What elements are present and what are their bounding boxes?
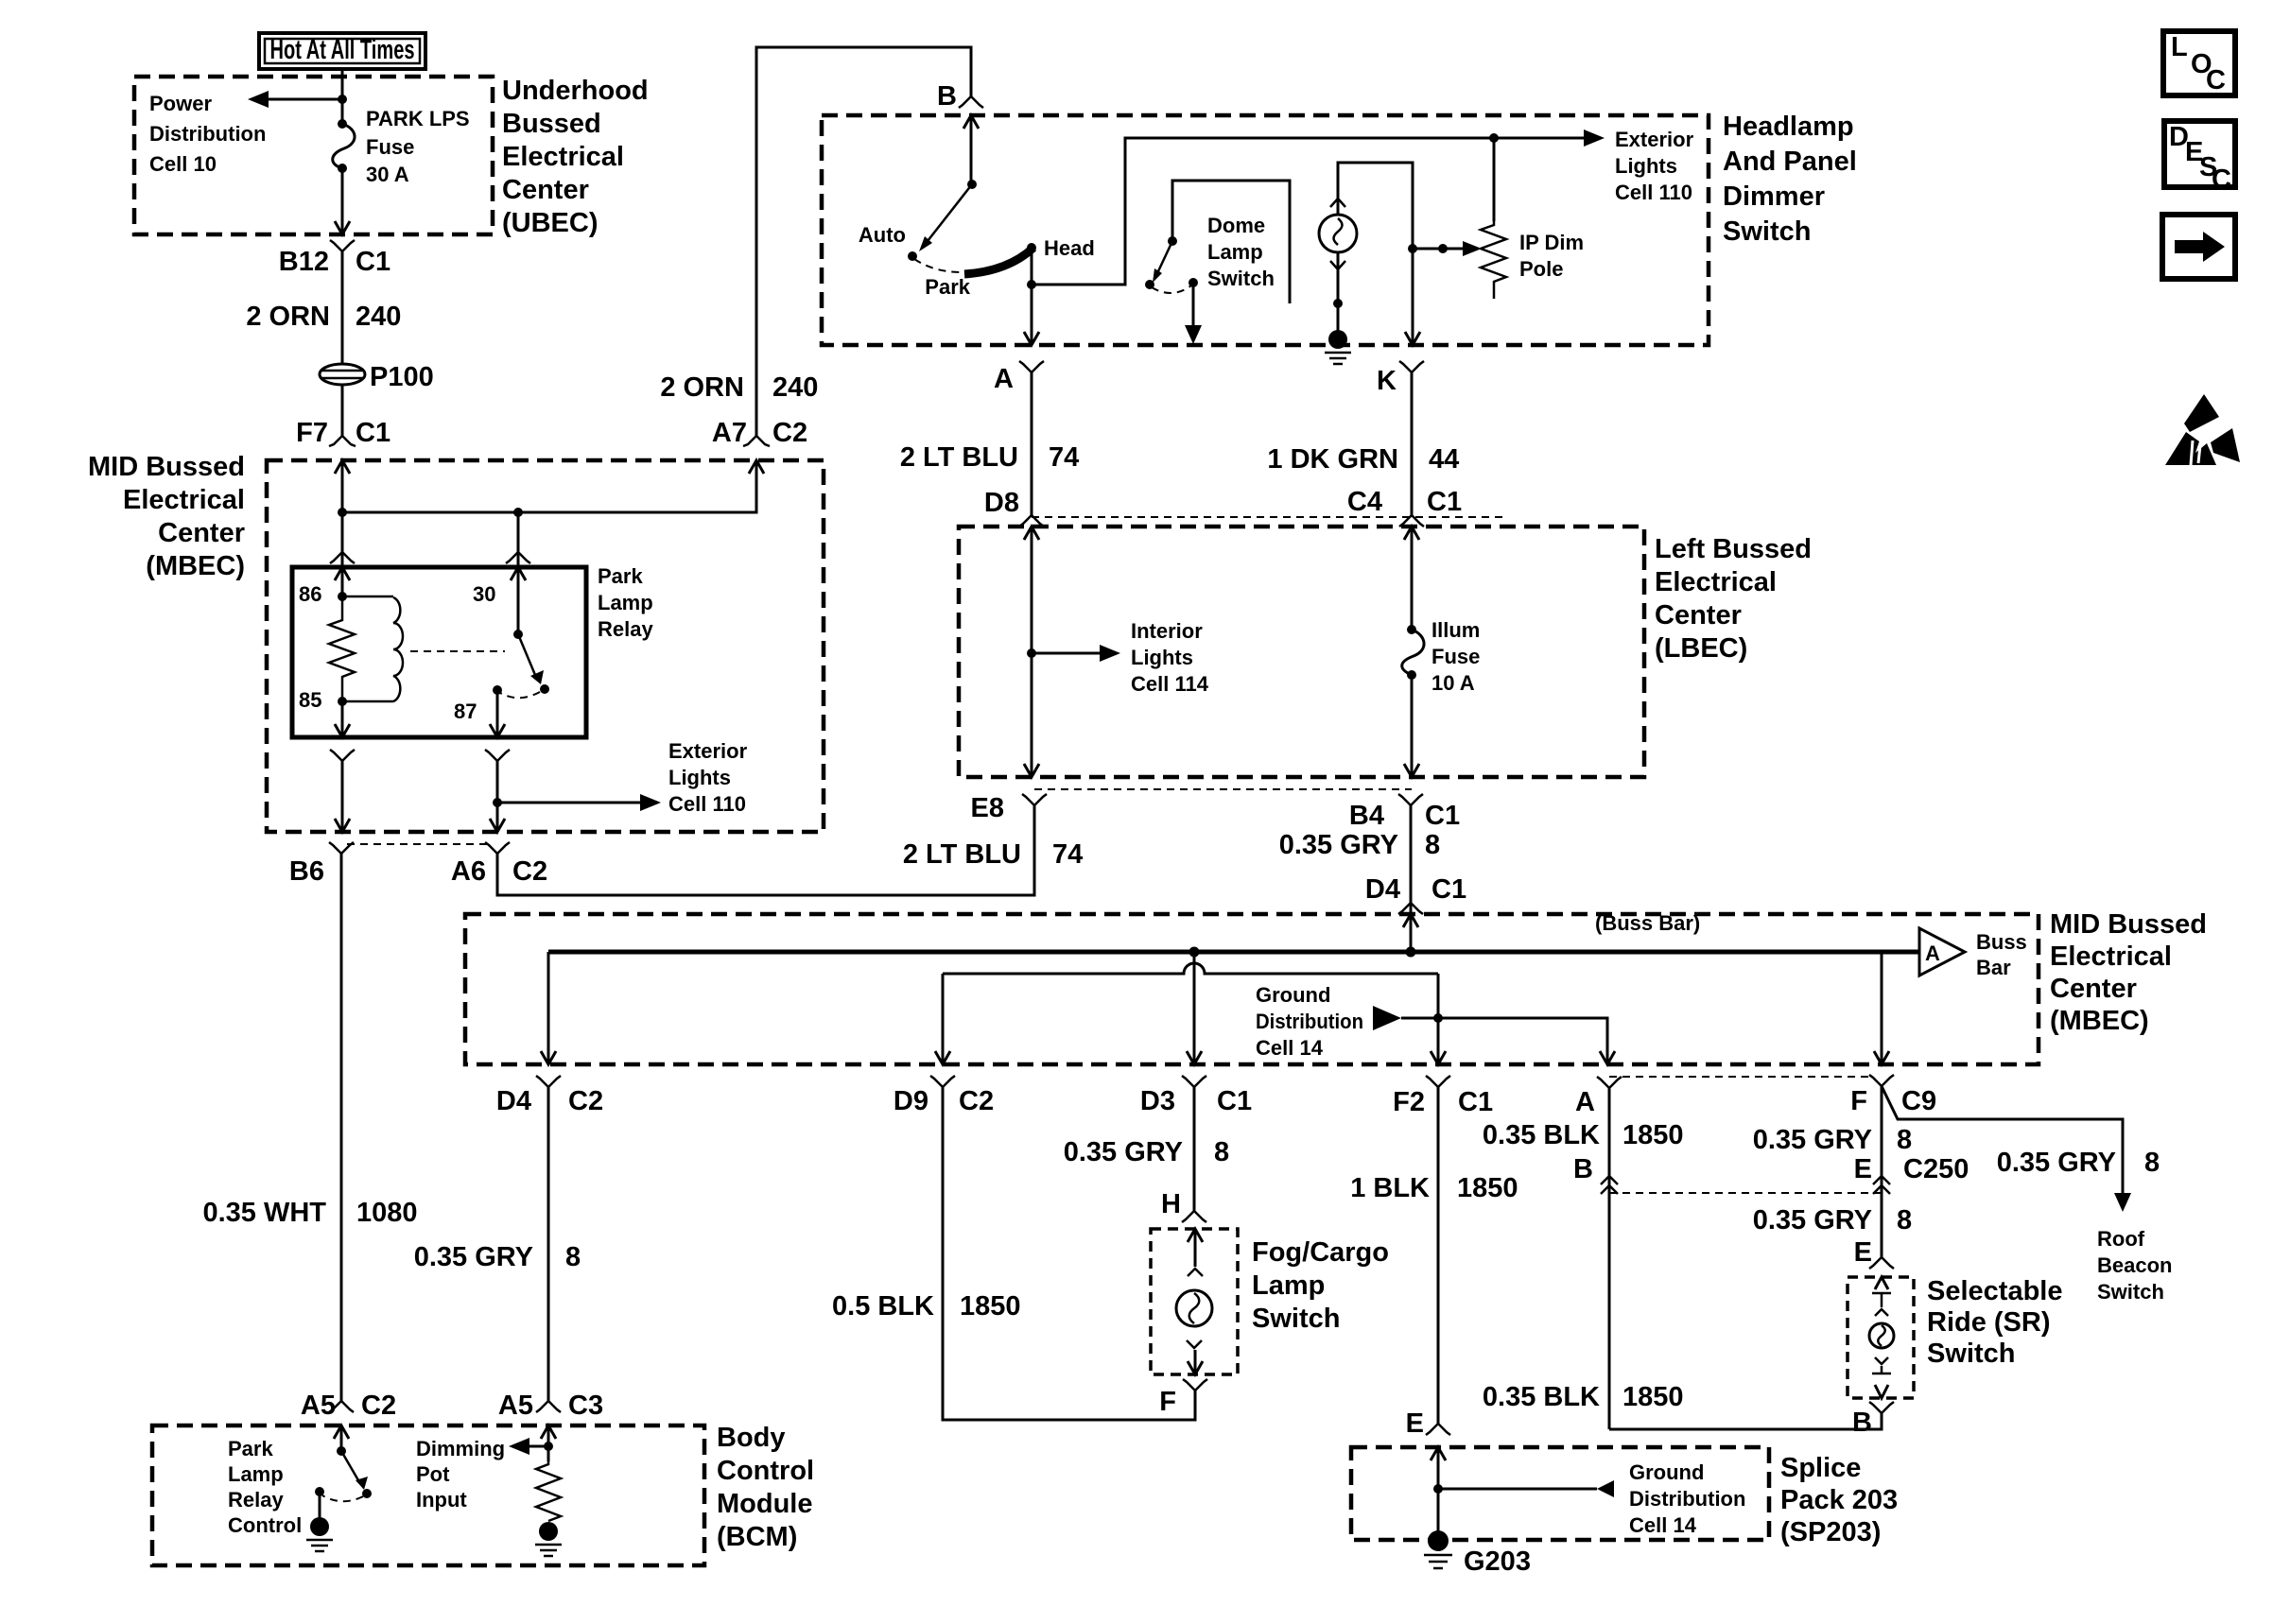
- svg-text:B: B: [937, 81, 957, 112]
- selectable ride illumination lamp: [1869, 1323, 1894, 1348]
- svg-text:2 ORN: 2 ORN: [660, 372, 744, 403]
- svg-text:8: 8: [2144, 1148, 2160, 1178]
- arrow into LBEC at D8: [1024, 527, 1039, 540]
- svg-text:MID Bussed: MID Bussed: [88, 452, 245, 482]
- UBEC dashed box: [134, 77, 493, 234]
- svg-text:C9: C9: [1901, 1086, 1936, 1116]
- wire label 0.35 GRY 8: [1753, 1125, 1912, 1155]
- svg-text:E8: E8: [971, 793, 1004, 823]
- node K branch: [1408, 244, 1417, 253]
- connector chevron B4/C1: [1398, 794, 1423, 805]
- wire D9/C2 down and over to fog switch F: [943, 1087, 1195, 1420]
- svg-text:Distribution: Distribution: [1629, 1487, 1745, 1511]
- wire label 0.35 BLK 1850 lower: [1483, 1382, 1684, 1412]
- arrow into fog box top: [1188, 1229, 1203, 1242]
- label Buss Bar: [1976, 930, 2027, 979]
- svg-text:87: 87: [454, 700, 477, 723]
- arrow at UBEC bottom edge: [335, 221, 350, 234]
- dome lamp switch upper wire: [1172, 181, 1290, 303]
- svg-text:(UBEC): (UBEC): [502, 208, 599, 238]
- svg-text:2 LT BLU: 2 LT BLU: [903, 839, 1021, 870]
- node relay coil top: [338, 592, 347, 601]
- svg-text:Center: Center: [1655, 600, 1742, 631]
- label Left Bussed Electrical Center (LBEC): [1655, 534, 1812, 664]
- connector chevron below pin 85: [330, 750, 355, 761]
- node headlamp switch pivot: [967, 180, 977, 189]
- wire relay pin 85: [341, 701, 344, 737]
- ground G203: [1424, 1530, 1452, 1568]
- svg-text:L: L: [2171, 32, 2188, 62]
- wire label 2 LT BLU 74: [900, 442, 1079, 473]
- ground net wire D9 drop: [942, 974, 945, 1064]
- connector chevron B at SR switch: [1869, 1402, 1894, 1413]
- arrow at MBEC bottom edge B6: [335, 819, 350, 832]
- wire label 2 LT BLU 74: [903, 839, 1083, 870]
- svg-text:86: 86: [299, 582, 321, 606]
- svg-text:K: K: [1377, 366, 1397, 396]
- wire F down through E/C250: [1881, 1086, 1883, 1257]
- label MID Bussed Electrical Center (MBEC): [2050, 909, 2207, 1036]
- arrow into box at B: [963, 115, 979, 129]
- connector chevron F2/C1: [1426, 1076, 1450, 1087]
- connector chevron A5/C2: [329, 1401, 354, 1412]
- arrow at fog box bottom: [1188, 1361, 1203, 1374]
- connector chevron B: [959, 96, 983, 108]
- svg-text:A6: A6: [451, 856, 486, 887]
- svg-text:C1: C1: [1425, 801, 1460, 831]
- wire panel lamp feed: [1338, 163, 1413, 345]
- svg-text:0.35 GRY: 0.35 GRY: [1279, 830, 1398, 860]
- svg-text:0.35 WHT: 0.35 WHT: [202, 1198, 326, 1228]
- node exterior lights branch: [493, 798, 502, 807]
- resistor IP Dim Pole: [1481, 221, 1506, 299]
- label Interior Lights Cell 114: [1131, 619, 1209, 696]
- buss bar triangle A: [1919, 928, 1965, 976]
- svg-text:Ground: Ground: [1256, 983, 1330, 1007]
- Headlamp And Panel Dimmer Switch dashed box: [822, 115, 1709, 345]
- svg-text:0.35 GRY: 0.35 GRY: [1753, 1125, 1872, 1155]
- connector chevron F/C9: [1869, 1075, 1894, 1086]
- label Selectable Ride (SR) Switch: [1927, 1276, 2062, 1369]
- connector chevron F7/C1: [329, 436, 356, 446]
- wire D3/C1 down to fog switch H: [1193, 1087, 1196, 1211]
- arrow into BCM at A5/C2: [334, 1425, 349, 1439]
- svg-text:Exterior: Exterior: [668, 739, 748, 763]
- ESD sensitivity symbol: [2165, 394, 2240, 465]
- dome switch lever: [1158, 241, 1172, 271]
- svg-text:Lamp: Lamp: [1207, 240, 1263, 264]
- wire into relay pin 86: [341, 552, 344, 596]
- dashed actuation link: [410, 650, 505, 652]
- svg-text:A: A: [1925, 942, 1940, 965]
- svg-text:30 A: 30 A: [366, 163, 409, 186]
- Park Lamp Relay box: [292, 567, 586, 737]
- svg-text:(MBEC): (MBEC): [2050, 1006, 2149, 1036]
- svg-text:Beacon: Beacon: [2097, 1253, 2172, 1277]
- svg-text:C1: C1: [1217, 1086, 1252, 1116]
- wire B into headlamp box: [970, 115, 973, 184]
- svg-text:Lights: Lights: [668, 766, 731, 789]
- arrow at relay pin 87: [490, 724, 505, 737]
- svg-text:(SP203): (SP203): [1780, 1517, 1881, 1547]
- wire to Power Distribution: [265, 98, 342, 101]
- arrow at MBEC bottom A: [1600, 1051, 1615, 1064]
- dome lever arrowhead: [1153, 268, 1162, 283]
- label Headlamp And Panel Dimmer Switch: [1723, 112, 1857, 247]
- svg-text:0.35 BLK: 0.35 BLK: [1483, 1382, 1600, 1412]
- svg-text:240: 240: [356, 302, 401, 332]
- svg-text:8: 8: [565, 1242, 581, 1272]
- ground net horizontal with hop: [943, 963, 1438, 974]
- svg-text:Splice: Splice: [1780, 1453, 1861, 1483]
- double chevron B: [1601, 1176, 1618, 1194]
- wire B6 down to BCM A5: [340, 854, 343, 1401]
- arrow at LBEC bottom left: [1024, 764, 1039, 777]
- connector chevron D8: [1019, 515, 1044, 527]
- DESC reference box: [2164, 121, 2235, 195]
- lamp chevron top: [1330, 199, 1345, 207]
- svg-text:A7: A7: [712, 418, 747, 448]
- connector chevron D4/C1: [1398, 903, 1423, 914]
- label Roof Beacon Switch: [2097, 1227, 2172, 1304]
- connector chevron A6: [485, 842, 510, 854]
- label Dimming Pot Input: [416, 1437, 505, 1512]
- SR lamp top bar: [1872, 1293, 1891, 1307]
- resistor dimming pot: [536, 1461, 561, 1521]
- svg-text:(LBEC): (LBEC): [1655, 633, 1747, 664]
- thin dashed connector line upper: [1609, 1076, 1870, 1078]
- svg-text:A: A: [1575, 1087, 1595, 1117]
- svg-text:Lamp: Lamp: [228, 1462, 284, 1486]
- svg-text:Fuse: Fuse: [366, 135, 414, 159]
- Selectable Ride switch dashed box: [1848, 1277, 1914, 1398]
- svg-text:Switch: Switch: [1207, 267, 1275, 290]
- wire label 0.5 BLK 1850: [832, 1291, 1021, 1322]
- node Head output junction: [1027, 280, 1036, 289]
- ground symbol in headlamp box: [1325, 330, 1351, 364]
- wire pin 85 to MBEC edge: [341, 761, 344, 832]
- arrow to Power Distribution Cell 10: [248, 91, 269, 108]
- chevron below fog lamp: [1187, 1340, 1202, 1348]
- svg-text:Cell 110: Cell 110: [1615, 181, 1692, 204]
- label Illum Fuse 10 A: [1431, 618, 1480, 695]
- svg-text:Pot: Pot: [416, 1462, 450, 1486]
- connector chevron A: [1597, 1077, 1622, 1088]
- svg-text:0.35 GRY: 0.35 GRY: [414, 1242, 533, 1272]
- svg-text:Interior: Interior: [1131, 619, 1203, 643]
- arrow at box edge A: [1024, 332, 1039, 345]
- svg-text:Center: Center: [158, 518, 245, 548]
- wire D8 through LBEC: [1031, 527, 1033, 777]
- node lamp ground junction: [1333, 299, 1343, 308]
- wire B12 to P100: [341, 251, 344, 365]
- arrow at MBEC bottom edge A6: [490, 819, 505, 832]
- BCM switch lever: [341, 1451, 358, 1480]
- arrow at relay pin 30: [511, 567, 526, 580]
- lamp chevron bottom: [1330, 261, 1345, 269]
- arrow into MBEC at F7: [335, 460, 350, 474]
- label Ground Distribution Cell 14: [1629, 1460, 1745, 1537]
- arrow into LBEC at C4/C1: [1404, 527, 1419, 540]
- thin dashed connector line above LBEC: [1032, 516, 1508, 518]
- label Park Lamp Relay Control: [228, 1437, 302, 1537]
- svg-text:Auto: Auto: [859, 223, 906, 247]
- svg-text:Pole: Pole: [1519, 257, 1563, 281]
- svg-text:C1: C1: [1427, 487, 1462, 517]
- wire A down to LBEC: [1031, 372, 1033, 515]
- MBEC dashed box (upper): [267, 460, 824, 832]
- svg-text:Underhood: Underhood: [502, 76, 649, 106]
- node dome switch contact left: [1145, 280, 1154, 289]
- ground distribution wire to A drop: [1401, 1018, 1607, 1064]
- svg-text:44: 44: [1429, 444, 1459, 475]
- label Exterior Lights Cell 110: [1615, 128, 1694, 204]
- svg-text:Dimming: Dimming: [416, 1437, 505, 1460]
- svg-text:Fog/Cargo: Fog/Cargo: [1252, 1237, 1389, 1268]
- wire label 0.35 GRY 8: [414, 1242, 581, 1272]
- thin dashed connector line B6-A6: [347, 843, 490, 845]
- wire dimming pot branch: [526, 1445, 548, 1448]
- svg-text:Electrical: Electrical: [1655, 567, 1777, 597]
- wire contact to ground: [319, 1492, 321, 1520]
- svg-text:8: 8: [1425, 830, 1440, 860]
- wire dome contact down: [1192, 283, 1195, 327]
- node junction on feed: [338, 508, 347, 517]
- loop wire to SR switch B: [1609, 1413, 1882, 1429]
- svg-text:Switch: Switch: [2097, 1280, 2164, 1304]
- arrow at MBEC bottom D4/C2: [541, 1051, 556, 1064]
- svg-text:D3: D3: [1140, 1086, 1175, 1116]
- wire K down to LBEC: [1411, 372, 1414, 515]
- svg-text:Lamp: Lamp: [1252, 1270, 1325, 1301]
- node junction to relay pin 30: [513, 508, 523, 517]
- BCM lever arrowhead: [356, 1477, 368, 1490]
- arrow to Roof Beacon Switch: [2114, 1193, 2131, 1212]
- wire D4 to buss bar: [1410, 914, 1413, 952]
- fuse Illum 10A: [1402, 625, 1424, 680]
- wire into relay pin 30: [517, 512, 520, 634]
- LOC reference box: [2163, 31, 2235, 95]
- wire A5/C3 inside BCM: [547, 1425, 550, 1461]
- svg-text:F7: F7: [296, 418, 328, 448]
- thin dashed connector line lower: [1609, 1192, 1882, 1194]
- svg-text:240: 240: [772, 372, 818, 403]
- arrow at IP dim pole: [1463, 241, 1482, 256]
- LBEC dashed box: [959, 527, 1644, 777]
- arrow to Exterior Lights Cell 110: [1584, 130, 1605, 147]
- thick selector arc Park-Head: [964, 248, 1033, 274]
- svg-text:C2: C2: [361, 1391, 396, 1421]
- arrow to Exterior Lights Cell 110: [640, 794, 661, 811]
- svg-text:Control: Control: [717, 1456, 814, 1486]
- node buss bar at D3: [1189, 947, 1200, 958]
- svg-text:Dome: Dome: [1207, 214, 1265, 237]
- svg-text:Park: Park: [228, 1437, 273, 1460]
- wire to interior lights: [1032, 652, 1103, 655]
- svg-text:Left Bussed: Left Bussed: [1655, 534, 1812, 564]
- wire label 0.35 BLK 1850: [1483, 1120, 1684, 1150]
- svg-text:1 DK GRN: 1 DK GRN: [1267, 444, 1398, 475]
- svg-text:Cell 14: Cell 14: [1629, 1513, 1697, 1537]
- svg-text:10 A: 10 A: [1431, 671, 1475, 695]
- wire F7 feed inside MBEC: [341, 460, 344, 552]
- wire to IP dim pole resistor: [1493, 138, 1496, 221]
- wire fog lamp top: [1194, 1229, 1197, 1267]
- svg-text:8: 8: [1897, 1125, 1912, 1155]
- SR lamp bottom bar: [1872, 1366, 1891, 1373]
- connector chevron C4/C1: [1399, 515, 1424, 527]
- double chevron E: [1873, 1176, 1890, 1194]
- wire A6 over to E8: [497, 805, 1034, 895]
- wire label 0.35 WHT 1080: [202, 1198, 417, 1228]
- arrow into splice pack: [1431, 1447, 1446, 1460]
- connector chevron relay pin 30: [506, 552, 530, 563]
- svg-text:D9: D9: [894, 1086, 928, 1116]
- wire label 2 ORN 240: [660, 372, 818, 403]
- wire relay pin 87: [496, 690, 499, 737]
- svg-text:Cell 10: Cell 10: [149, 152, 217, 176]
- svg-text:G203: G203: [1464, 1546, 1531, 1577]
- svg-text:1080: 1080: [356, 1198, 418, 1228]
- svg-text:Cell 110: Cell 110: [668, 792, 746, 816]
- Splice Pack 203 dashed box: [1351, 1447, 1769, 1540]
- svg-text:Switch: Switch: [1927, 1339, 2015, 1369]
- wire lamp to ground: [1337, 251, 1340, 333]
- svg-text:85: 85: [299, 688, 321, 712]
- headlamp switch lever: [928, 184, 972, 241]
- svg-text:Pack 203: Pack 203: [1780, 1485, 1898, 1515]
- label Underhood Bussed Electrical Center (UBEC): [502, 76, 649, 238]
- svg-text:Park: Park: [925, 275, 970, 299]
- svg-text:1850: 1850: [1457, 1173, 1518, 1203]
- wire label 1 DK GRN 44: [1267, 444, 1459, 475]
- dashed contact arc: [500, 692, 540, 698]
- connector chevron A7/C2: [743, 436, 770, 446]
- svg-text:B12: B12: [279, 247, 329, 277]
- wire B4 to D4: [1410, 805, 1413, 914]
- connector chevron D3/C1: [1182, 1076, 1206, 1087]
- MBEC dashed box (lower): [465, 914, 2039, 1064]
- arrow at relay pin 86: [335, 567, 350, 580]
- resistor in relay: [329, 596, 355, 701]
- svg-text:Electrical: Electrical: [2050, 942, 2172, 972]
- svg-text:Lamp: Lamp: [598, 591, 653, 614]
- svg-text:C1: C1: [356, 247, 390, 277]
- svg-text:E: E: [1854, 1237, 1872, 1268]
- svg-text:2 ORN: 2 ORN: [246, 302, 330, 332]
- wire D4/C2 down to BCM: [547, 1087, 550, 1401]
- svg-text:Headlamp: Headlamp: [1723, 112, 1854, 142]
- connector chevron F: [1183, 1379, 1207, 1391]
- svg-text:IP Dim: IP Dim: [1519, 231, 1584, 254]
- arrow at MBEC bottom F/C9: [1874, 1051, 1889, 1064]
- relay lever arrowhead: [530, 670, 544, 684]
- arrow at MBEC bottom D9/C2: [935, 1051, 950, 1064]
- svg-text:74: 74: [1052, 839, 1083, 870]
- Hot At All Times flag box: [259, 33, 425, 69]
- svg-text:D4: D4: [496, 1086, 531, 1116]
- panel illumination lamp: [1319, 215, 1357, 252]
- arrow at MBEC bottom D3/C1: [1187, 1051, 1202, 1064]
- svg-text:B: B: [1852, 1408, 1872, 1438]
- svg-text:B6: B6: [289, 856, 324, 887]
- svg-text:C250: C250: [1903, 1154, 1969, 1184]
- thin dashed connector line below LBEC: [1034, 788, 1412, 790]
- chevron above SR lamp: [1875, 1309, 1888, 1316]
- forward arrow reference box: [2162, 215, 2235, 279]
- filled arrow at box edge: [1185, 325, 1202, 344]
- wire illum fuse bottom: [1411, 675, 1414, 777]
- node relay common 30: [513, 630, 523, 639]
- label Dome Lamp Switch: [1207, 214, 1275, 290]
- arrow to Dimming Pot Input: [509, 1438, 529, 1455]
- node BCM switch pivot: [337, 1446, 346, 1456]
- chevron below SR lamp: [1875, 1357, 1888, 1364]
- svg-text:A5: A5: [301, 1391, 336, 1421]
- arrow into MBEC at A7: [749, 460, 764, 474]
- svg-text:0.35 GRY: 0.35 GRY: [1064, 1137, 1183, 1167]
- wire A7 up and over to headlamp switch B: [756, 47, 971, 436]
- svg-text:Hot At All Times: Hot At All Times: [270, 35, 415, 65]
- svg-text:Center: Center: [502, 175, 589, 205]
- connector chevron E: [1426, 1424, 1450, 1435]
- dashed selector arc Auto-Park: [914, 259, 962, 272]
- svg-text:(Buss Bar): (Buss Bar): [1595, 911, 1700, 935]
- wire P100 to F7: [341, 385, 344, 436]
- svg-text:Relay: Relay: [228, 1488, 284, 1512]
- dashed contact arc: [1152, 285, 1191, 293]
- ground symbol dimming pot: [535, 1522, 562, 1556]
- svg-text:C4: C4: [1347, 487, 1382, 517]
- arrow from Ground Distribution: [1373, 1006, 1401, 1030]
- svg-text:Electrical: Electrical: [123, 485, 245, 515]
- svg-text:C2: C2: [959, 1086, 994, 1116]
- svg-text:F2: F2: [1393, 1087, 1425, 1117]
- wire F/C9 jog to roof beacon: [1882, 1086, 2123, 1195]
- connector chevron B6: [329, 842, 354, 854]
- node relay pin 87 contact: [493, 685, 502, 695]
- svg-text:C: C: [2212, 164, 2231, 195]
- wire label 0.35 GRY 8 roof beacon: [1997, 1148, 2160, 1178]
- svg-text:F: F: [1850, 1086, 1867, 1116]
- arrow at box edge K: [1405, 332, 1420, 345]
- svg-text:A: A: [994, 364, 1014, 394]
- svg-text:Dimmer: Dimmer: [1723, 181, 1825, 212]
- node relay lever contact: [540, 684, 549, 694]
- relay coil: [342, 596, 403, 701]
- wire fog lamp bottom: [1194, 1350, 1197, 1374]
- svg-text:Selectable: Selectable: [1927, 1276, 2062, 1306]
- arrow at relay pin 85: [335, 724, 350, 737]
- svg-text:0.5 BLK: 0.5 BLK: [832, 1291, 934, 1322]
- BCM dashed box: [152, 1425, 704, 1565]
- connector chevron H: [1182, 1211, 1206, 1222]
- arrow at SR box bottom: [1875, 1385, 1888, 1398]
- svg-text:And Panel: And Panel: [1723, 147, 1857, 177]
- wire A5/C2 inside BCM: [340, 1425, 343, 1451]
- label PARK LPS Fuse 30 A: [366, 107, 470, 186]
- fuse PARK LPS 30A: [333, 119, 355, 173]
- svg-text:Electrical: Electrical: [502, 142, 624, 172]
- svg-text:Park: Park: [598, 564, 643, 588]
- svg-text:Head: Head: [1044, 236, 1095, 260]
- svg-text:1 BLK: 1 BLK: [1350, 1173, 1430, 1203]
- svg-text:30: 30: [473, 582, 495, 606]
- svg-text:Illum: Illum: [1431, 618, 1480, 642]
- label Body Control Module (BCM): [717, 1423, 814, 1552]
- node BCM lever contact: [362, 1489, 372, 1498]
- svg-text:H: H: [1161, 1189, 1181, 1219]
